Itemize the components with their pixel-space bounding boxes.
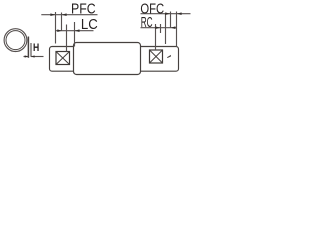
right tape holder box [141,47,179,72]
extension line left 2 (x=62) [61,13,63,32]
component ring inner (side view) [6,31,25,50]
dimension H arrow left [25,55,29,57]
left tape cross-section square [56,52,70,65]
extension line right 1 (x=155.2 to tape square) [155,24,157,50]
svg-text:H: H [33,42,39,54]
dimension OFC arrow left [165,12,170,15]
right tape cross-section square [150,50,163,63]
lead wire left edge (side view) [27,37,29,58]
extension line right 5 (x=176.6) [176,12,178,47]
component ring outer (side view) [4,29,27,52]
extension line right 3 (x=165.5) [165,14,167,44]
dimension RC arrow left [155,26,160,29]
dimension PFC arrow right [62,13,67,16]
dimension RC arrow right [171,26,176,29]
dimension OFC arrow right [177,12,182,15]
extension line right 4 (x=170.1) [170,12,172,29]
left tape square diagonal 2 [56,52,70,65]
right tape square diagonal 2 [150,50,163,63]
dimension H arrow right [31,55,34,57]
svg-text:LC: LC [81,15,98,32]
right lead end mark [167,55,171,58]
dimension LC arrow right [75,29,80,32]
dimension H line left tail [24,56,29,58]
dimension OFC line [141,13,191,15]
extension line left 4 (x=74.9) [74,22,76,47]
dimension PFC line [41,14,97,16]
svg-text:PFC: PFC [71,0,96,16]
extension line left 3 (x=66.4 to tape square) [66,25,68,52]
dimension H line right tail [31,56,44,58]
left tape holder box [50,47,75,72]
right tape square diagonal 1 [150,50,163,63]
dimension LC line [56,30,94,32]
extension line right 2 (x=160.8) [160,24,162,33]
extension line left 1 (x=55.2) [55,12,57,44]
dimension PFC arrow left [50,13,55,16]
left tape square diagonal 1 [56,52,70,65]
lead wire right edge (side view) [30,43,32,57]
component body (front view) [74,43,141,75]
svg-text:RC: RC [141,13,153,30]
dimension LC arrow left [57,29,62,32]
dimension RC line [141,27,177,29]
